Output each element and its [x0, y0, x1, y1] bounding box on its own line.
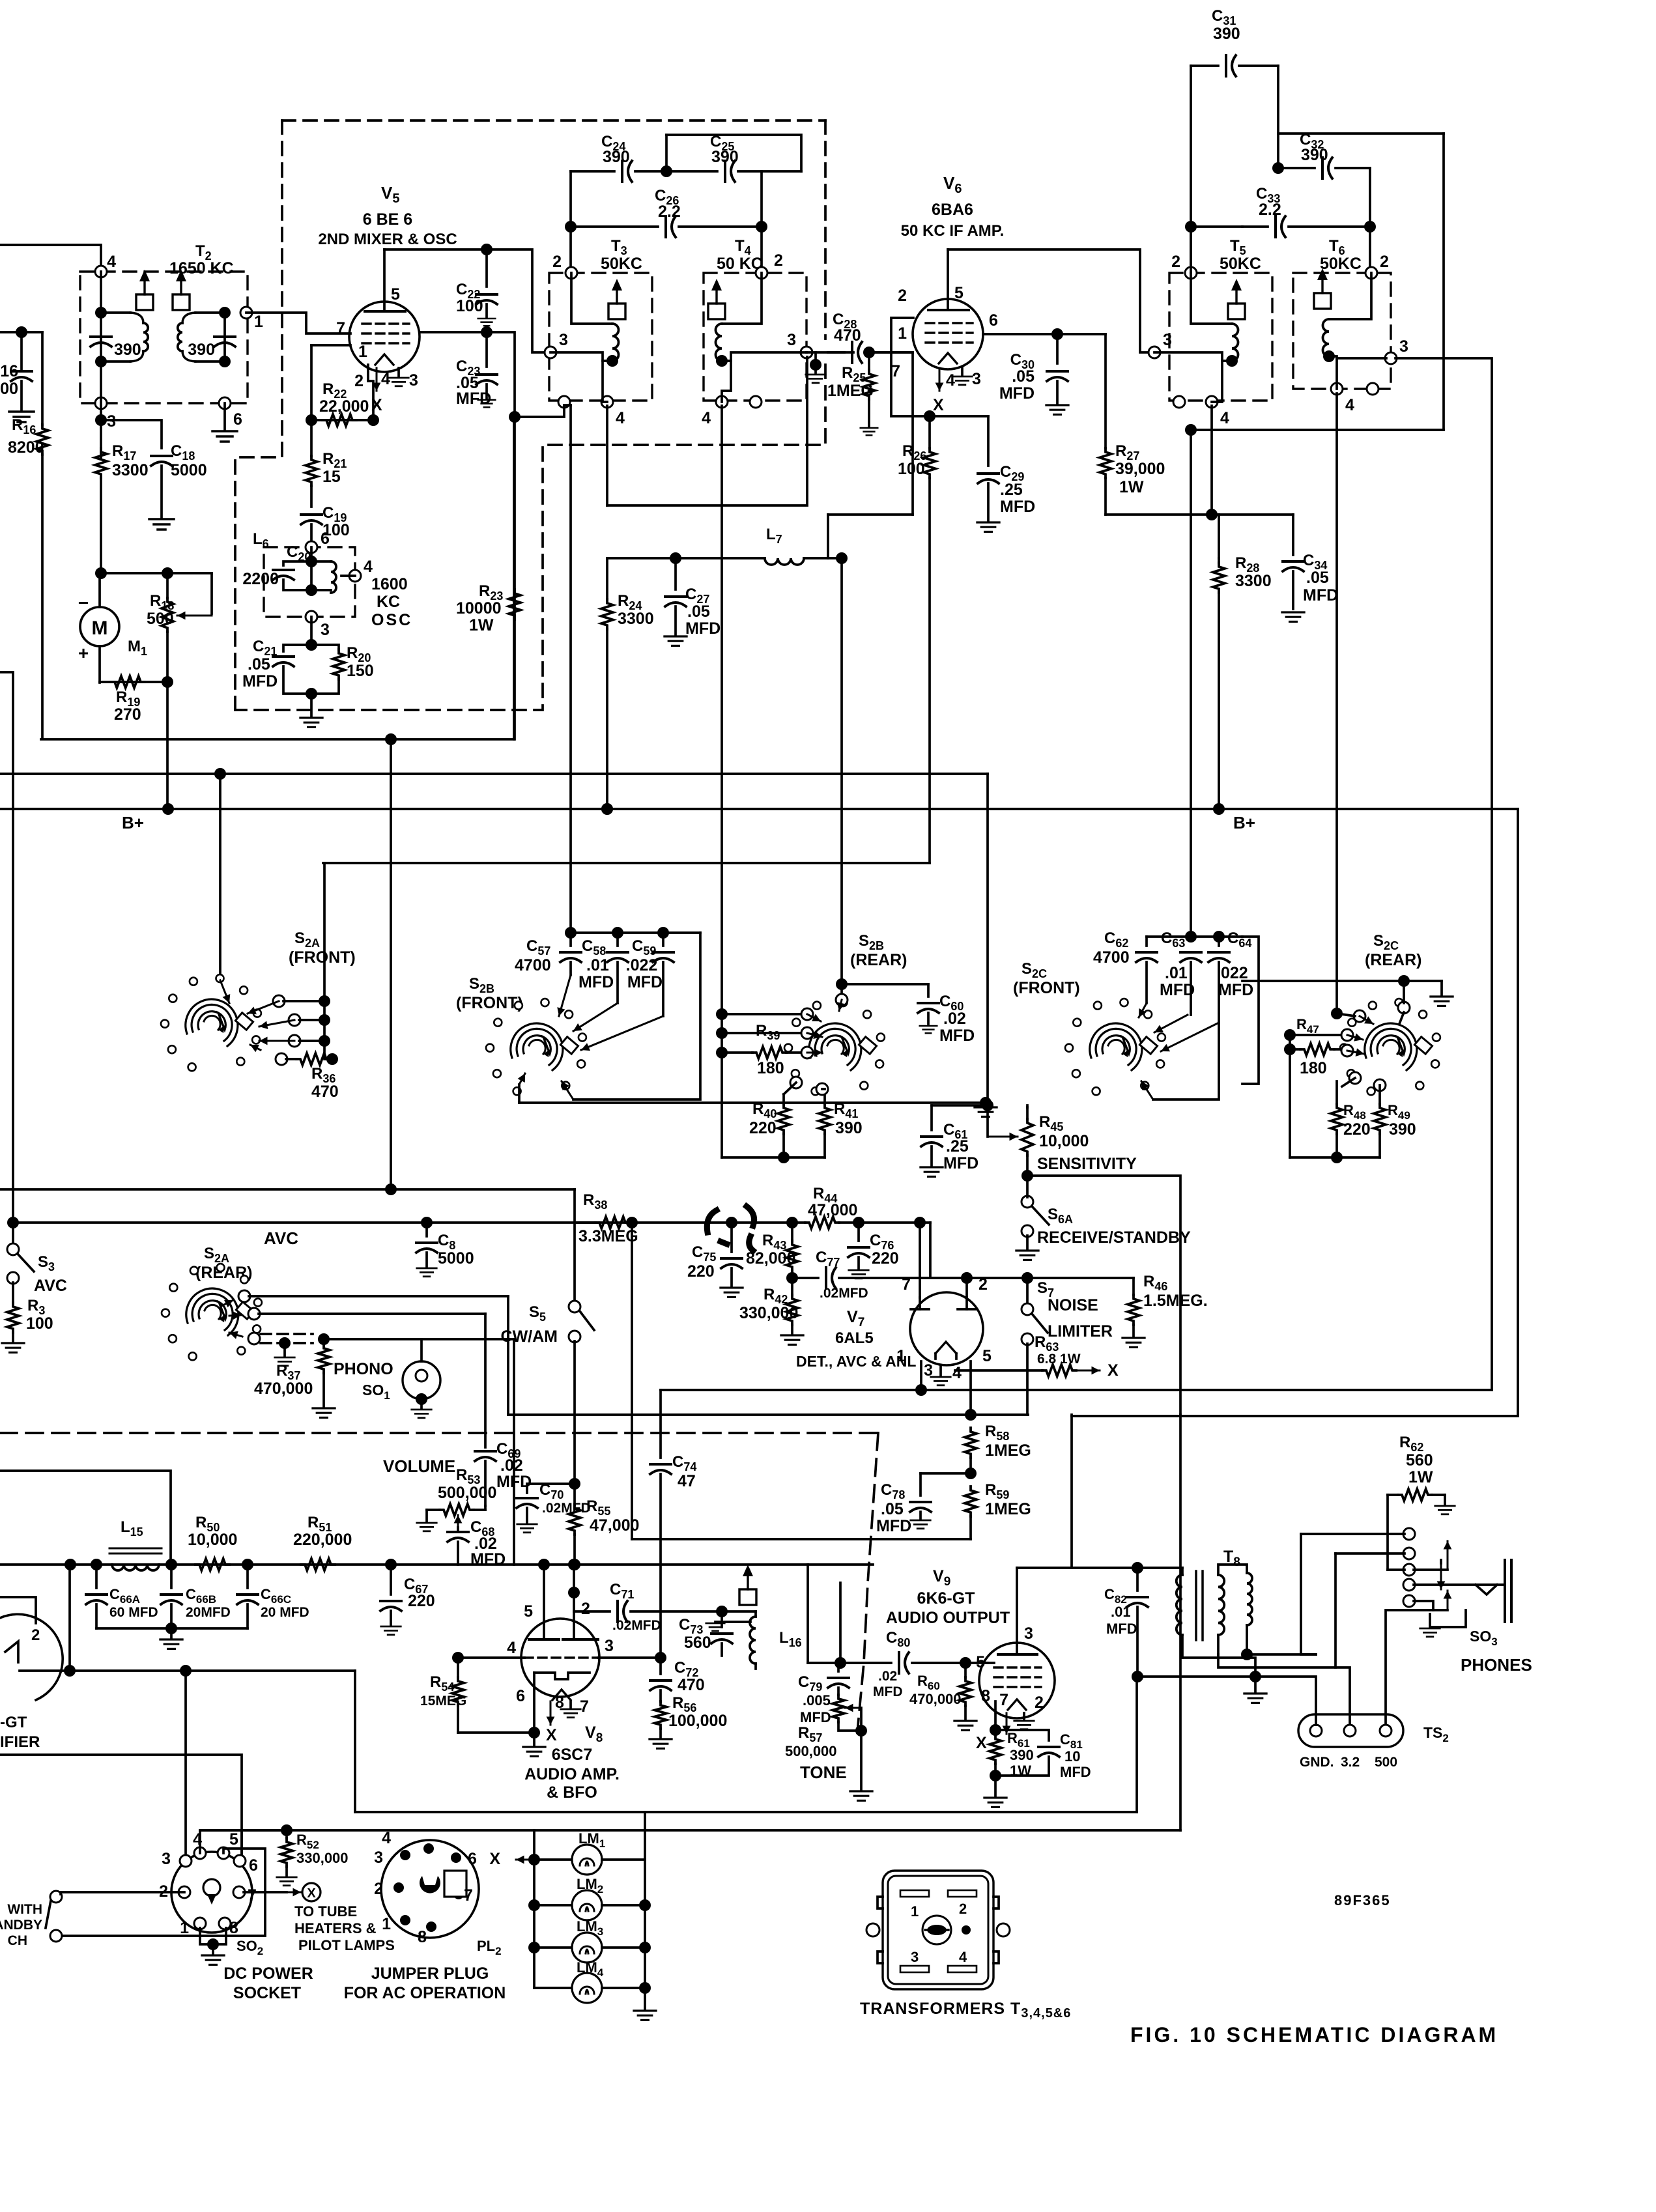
svg-text:6: 6 [468, 1850, 477, 1868]
svg-text:6: 6 [321, 530, 330, 548]
outer dashed boundary of converter/oscillator section [282, 119, 825, 122]
wire L7 to V6 grid line [828, 513, 913, 516]
V9 pin 3 wire [1016, 1568, 1018, 1654]
DC power socket SO2 [171, 1852, 252, 1933]
svg-text:4: 4 [107, 253, 116, 271]
svg-text:7: 7 [248, 1886, 257, 1905]
L6 pin 6 [306, 541, 317, 553]
R48/R49 bottom tie [1290, 1156, 1380, 1159]
svg-text:10: 10 [1064, 1748, 1080, 1765]
svg-text:16: 16 [0, 362, 18, 380]
svg-text:(FRONT): (FRONT) [289, 948, 356, 967]
switch S6A RECEIVE/STANDBY [1021, 1196, 1033, 1208]
svg-text:2: 2 [552, 253, 562, 271]
network bottom tie [722, 1156, 825, 1159]
capacitor C75 220 [730, 1223, 733, 1252]
T4 pin 3 [801, 347, 812, 358]
SO2 box outline [240, 1830, 243, 1854]
svg-text:6: 6 [989, 311, 998, 330]
svg-text:(FRONT): (FRONT) [456, 994, 523, 1012]
svg-text:TONE: TONE [800, 1763, 847, 1782]
svg-text:50 KC IF AMP.: 50 KC IF AMP. [901, 222, 1005, 240]
capacitor C66C 20 MFD [246, 1565, 249, 1588]
svg-text:MFD: MFD [1303, 586, 1338, 604]
svg-text:2: 2 [374, 1880, 383, 1898]
svg-text:6: 6 [249, 1856, 258, 1875]
V6 pin6 wire [983, 333, 1106, 335]
C66 bottom tie [96, 1627, 248, 1630]
wire T2 pin6 to ground [223, 403, 226, 430]
wire R38 down to audio bus [631, 1223, 633, 1539]
svg-text:.02MFD: .02MFD [612, 1618, 661, 1633]
T5 slug [1228, 304, 1245, 319]
resistor R21 15 [310, 420, 313, 456]
svg-text:82,000: 82,000 [746, 1249, 795, 1268]
T5 winding [1191, 273, 1232, 324]
AVC feed drop to C62 bank [1190, 430, 1192, 937]
phone jack body [1504, 1560, 1506, 1622]
wire T5 pin4 down [1210, 406, 1213, 515]
capacitor C62 4700 [1136, 951, 1157, 954]
svg-text:8: 8 [418, 1928, 427, 1946]
resistor R24 3300 [606, 558, 608, 599]
V6 cathode [939, 353, 957, 363]
audio B+ bus [0, 1563, 873, 1566]
svg-text:470: 470 [678, 1676, 705, 1694]
svg-text:MFD: MFD [456, 390, 491, 408]
V5 pin 4 heater arrow [376, 368, 378, 391]
S2C rear lower contacts [1349, 1072, 1361, 1084]
capacitor C28 470 [828, 351, 844, 354]
svg-text:.02: .02 [943, 1010, 966, 1028]
svg-text:22,000: 22,000 [319, 397, 369, 416]
potentiometer R45 10,000 [988, 1136, 1018, 1138]
svg-text:2: 2 [31, 1626, 40, 1644]
svg-text:5: 5 [524, 1602, 533, 1621]
V8 pin 8 heater [550, 1701, 552, 1725]
svg-text:1: 1 [898, 324, 907, 343]
wire C57 bank top bus [569, 931, 572, 934]
svg-text:MFD: MFD [1000, 498, 1035, 516]
capacitor C57 4700 [569, 933, 572, 946]
svg-text:6K6-GT: 6K6-GT [917, 1589, 975, 1608]
svg-text:5: 5 [982, 1347, 992, 1365]
T3 pin 3 [545, 347, 556, 358]
svg-text:4700: 4700 [1093, 948, 1130, 967]
svg-text:AUDIO OUTPUT: AUDIO OUTPUT [886, 1609, 1010, 1627]
svg-text:390: 390 [114, 341, 141, 359]
svg-text:3300: 3300 [1235, 572, 1272, 590]
svg-text:390: 390 [711, 148, 739, 166]
wire S2C rear top [1242, 980, 1442, 982]
svg-text:2: 2 [1380, 253, 1389, 271]
wire T8 sec bottom to TS2 3.2 [1218, 1654, 1350, 1725]
capacitor C24 390 [621, 161, 623, 182]
svg-text:1W: 1W [1408, 1468, 1433, 1486]
switch S2C REAR wafer [1365, 1023, 1417, 1070]
V10 cathode bus [20, 1669, 355, 1672]
S2A ladder vertical [324, 863, 332, 1059]
switch S7 NOISE LIMITER [1026, 1278, 1029, 1304]
tube V5 envelope [349, 302, 420, 372]
resistor R26 100 [928, 416, 931, 448]
capacitor C66B 20MFD [170, 1565, 173, 1588]
V8 pin 6 wire [533, 1673, 535, 1733]
wire IF bottom bus [1191, 429, 1444, 431]
svg-text:HEATERS &: HEATERS & [294, 1920, 377, 1936]
lamp bus ground [644, 1988, 646, 2009]
resistor R44 47,000 [786, 1217, 798, 1228]
wire IF line with L7 [607, 557, 765, 560]
capacitor C22 100 [485, 249, 488, 287]
svg-text:CH: CH [8, 1933, 27, 1948]
svg-text:3: 3 [559, 331, 568, 349]
svg-text:LIMITER: LIMITER [1048, 1322, 1113, 1340]
svg-text:MFD: MFD [1160, 981, 1195, 999]
resistor R43 82,000 [791, 1223, 793, 1241]
resistor R23 10000 1W [509, 589, 521, 619]
S2C rear left contacts [1331, 1008, 1343, 1019]
PL2 notch rect [444, 1871, 466, 1897]
svg-text:470: 470 [311, 1083, 339, 1101]
capacitor C34 .05 MFD [1219, 513, 1293, 516]
svg-text:390: 390 [835, 1119, 863, 1137]
svg-text:6: 6 [516, 1687, 525, 1705]
R57 pot symbol with C79 [837, 1663, 840, 1671]
bus line 1 [41, 738, 514, 741]
capacitor C61 .25 MFD [930, 1105, 933, 1130]
resistor R28 3300 [1218, 558, 1220, 563]
svg-text:SENSITIVITY: SENSITIVITY [1037, 1155, 1137, 1173]
svg-text:6.8 1W: 6.8 1W [1037, 1352, 1081, 1367]
svg-text:10,000: 10,000 [188, 1531, 237, 1549]
svg-text:.01: .01 [1165, 964, 1188, 982]
svg-text:022: 022 [1221, 964, 1248, 982]
T3 pin 2 [565, 267, 577, 279]
resistor R46 1.5MEG [1132, 1278, 1135, 1295]
svg-text:3300: 3300 [618, 610, 654, 628]
svg-text:.01: .01 [586, 956, 609, 974]
svg-text:7: 7 [999, 1691, 1008, 1709]
B plus feed right section [1442, 134, 1445, 430]
capacitor C29 .25 MFD [987, 416, 990, 466]
tube V9 envelope [979, 1643, 1055, 1718]
tube V8 envelope [521, 1619, 599, 1697]
V8 grid dashed [524, 1656, 598, 1658]
S2A rotor arrow [220, 980, 229, 1003]
svg-text:MFD: MFD [685, 619, 721, 638]
grid resistor R22 22,000 [306, 414, 317, 426]
wire left edge feed [0, 331, 42, 333]
svg-text:3: 3 [972, 370, 981, 388]
svg-text:100: 100 [456, 297, 483, 315]
svg-text:X: X [546, 1726, 557, 1744]
svg-text:X: X [1107, 1361, 1119, 1380]
svg-text:.25: .25 [1000, 481, 1023, 499]
svg-text:6BA6: 6BA6 [932, 201, 973, 219]
svg-text:3: 3 [162, 1850, 171, 1868]
L6 pin 3 [306, 611, 317, 623]
svg-text:4: 4 [364, 558, 373, 576]
transformer T6 box [1293, 273, 1391, 389]
V9 pin2 ground [1023, 1713, 1025, 1720]
svg-text:.05: .05 [687, 603, 710, 621]
bus line B right segment [1072, 1415, 1518, 1417]
resistor R38 3.3MEG [577, 1221, 595, 1224]
svg-text:4: 4 [381, 370, 390, 388]
wire IF to S2B rear [828, 557, 842, 560]
svg-text:2200: 2200 [242, 570, 279, 588]
potentiometer R18 500 [210, 573, 213, 614]
T3 pin 4 [601, 396, 613, 408]
switch S2B FRONT wafer [511, 1023, 563, 1070]
dashed phono/audio separator [0, 1432, 878, 1434]
R48/R49 resistors [1335, 1081, 1338, 1104]
svg-text:47,000: 47,000 [808, 1201, 857, 1219]
svg-text:7: 7 [580, 1697, 589, 1716]
svg-text:3: 3 [374, 1849, 383, 1867]
svg-text:390: 390 [1010, 1747, 1034, 1763]
wire to T8 region [354, 1671, 356, 1812]
R54 ground tie [458, 1731, 534, 1734]
wire R44 right to C76/R46 node [859, 1221, 930, 1224]
svg-text:4: 4 [507, 1639, 516, 1657]
V8 pin 2 [573, 1565, 575, 1639]
svg-text:FIG. 10 SCHEMATIC DIAGRAM: FIG. 10 SCHEMATIC DIAGRAM [1130, 2023, 1498, 2047]
svg-text:47,000: 47,000 [590, 1516, 639, 1535]
svg-text:JUMPER PLUG: JUMPER PLUG [371, 1964, 489, 1983]
V7 pin 2 wire [965, 1278, 968, 1297]
svg-text:2.2: 2.2 [1259, 201, 1281, 219]
svg-text:.01: .01 [1111, 1604, 1131, 1620]
S2A front contacts to ladder [273, 995, 285, 1007]
svg-text:500: 500 [1375, 1755, 1397, 1770]
transformer T5 box [1169, 273, 1272, 401]
long bus to lamps upper [355, 1811, 1137, 1813]
wire phono feed drop [513, 1339, 515, 1565]
R59 1MEG [965, 1486, 977, 1516]
L6 pin 4 [349, 570, 361, 582]
svg-text:(FRONT): (FRONT) [1013, 979, 1080, 997]
svg-text:MFD: MFD [939, 1027, 975, 1045]
svg-text:4: 4 [702, 409, 711, 427]
bus line B noise [508, 1413, 1028, 1416]
svg-text:MFD: MFD [1060, 1764, 1091, 1780]
capacitor C21 .05 MFD [283, 645, 311, 651]
resistor R36 470 [286, 1058, 296, 1060]
svg-text:50KC: 50KC [601, 255, 642, 273]
footprint center [922, 1916, 951, 1944]
svg-text:3: 3 [1163, 331, 1172, 349]
capacitor C32 390 [1272, 162, 1284, 174]
svg-text:3.2: 3.2 [1341, 1755, 1360, 1770]
svg-text:X: X [307, 1886, 316, 1901]
AVC bus [13, 1221, 792, 1224]
transformer T2 box [80, 272, 248, 403]
T6 slug [1314, 293, 1331, 309]
phone jack terminals [1403, 1528, 1415, 1540]
T2 pin 6 [219, 397, 231, 409]
L6 oscillator coil box [264, 547, 355, 617]
T5 pin 4 [1206, 396, 1218, 408]
AVC return bus [323, 862, 930, 864]
T3 winding [571, 273, 612, 324]
svg-text:(REAR): (REAR) [850, 951, 907, 969]
V8 grid wire left [458, 1656, 524, 1659]
svg-text:2: 2 [1171, 253, 1180, 271]
wire to ground [310, 694, 313, 716]
svg-text:.05: .05 [248, 655, 270, 674]
capacitor C18 5000 [151, 455, 172, 457]
tube V6 envelope [913, 299, 983, 369]
long bus to lamps lower [200, 1829, 1180, 1832]
C62/63/64 top bus [1147, 935, 1242, 938]
wire top link to C32 [1277, 66, 1279, 168]
V5 plate bar [365, 310, 405, 313]
svg-text:2: 2 [898, 287, 907, 305]
svg-text:4: 4 [952, 1364, 962, 1382]
wire osc bottom joint [569, 405, 572, 933]
svg-text:3: 3 [1399, 337, 1408, 356]
capacitor C33 2.2 [1242, 225, 1268, 228]
transformer T3 box [549, 273, 652, 401]
svg-text:500,000: 500,000 [438, 1484, 496, 1502]
T5 pin 2 [1185, 267, 1197, 279]
T4 bottom terminal [750, 396, 762, 408]
T2 pin 1 [240, 307, 252, 319]
svg-text:4: 4 [616, 409, 625, 427]
V5 plate wire to T3 [384, 249, 546, 352]
footprint pads [900, 1890, 929, 1897]
capacitor C72 470 [659, 1658, 662, 1674]
svg-text:2: 2 [1035, 1694, 1044, 1712]
tube V7 envelope [910, 1292, 983, 1365]
switch S2B REAR wafer [809, 1023, 861, 1070]
resistor R60 470,000 [960, 1657, 971, 1669]
wire C80 to V9 grid [965, 1662, 988, 1664]
capacitor C82 .01 MFD [1136, 1568, 1139, 1591]
svg-text:330,000: 330,000 [296, 1850, 349, 1866]
svg-text:3: 3 [321, 621, 330, 639]
wire C33 left link [1191, 225, 1242, 228]
L16 ground tap [715, 1621, 750, 1623]
svg-text:MFD: MFD [242, 672, 278, 690]
svg-text:MFD: MFD [627, 973, 663, 991]
svg-text:100: 100 [26, 1314, 53, 1333]
svg-text:PHONO: PHONO [334, 1360, 393, 1378]
svg-text:MFD: MFD [578, 973, 614, 991]
svg-text:TO TUBE: TO TUBE [294, 1903, 357, 1920]
T4 pin 2 [756, 267, 767, 279]
wire V10 grid line [0, 1755, 242, 1854]
svg-text:6: 6 [233, 410, 242, 429]
V10 cathode chevron [5, 1641, 18, 1662]
jack sleeve ground [1430, 1610, 1466, 1627]
V5 pin 5 [383, 249, 386, 311]
ground [149, 519, 174, 530]
V10 coupling box wire [0, 1471, 171, 1565]
switch S2C FRONT wafer [1090, 1023, 1142, 1070]
S2B front bottom return [573, 933, 700, 1099]
svg-text:3: 3 [1024, 1624, 1033, 1643]
svg-text:5: 5 [976, 1653, 985, 1671]
svg-text:6SC7: 6SC7 [552, 1746, 593, 1764]
resistor R27 39,000 1W [1100, 448, 1111, 478]
svg-text:5: 5 [391, 285, 400, 304]
S2B rear lower contacts [790, 1077, 802, 1088]
capacitor C81 10 MFD [995, 1730, 1049, 1740]
V7 pin 7 wire [919, 1223, 921, 1297]
svg-text:1600: 1600 [371, 575, 408, 593]
svg-text:150: 150 [347, 662, 374, 680]
wire sensitivity feed [986, 1103, 989, 1105]
svg-text:470,000: 470,000 [909, 1691, 962, 1707]
T2 pin 3 [95, 397, 107, 409]
svg-text:5000: 5000 [171, 461, 207, 479]
T6 pin 3 [1385, 352, 1397, 364]
svg-text:+: + [78, 643, 89, 663]
T2 pin 4 [95, 266, 107, 277]
wire L6 pin3 down [310, 617, 313, 645]
capacitor C8 5000 [425, 1223, 428, 1236]
svg-text:FOR AC OPERATION: FOR AC OPERATION [344, 1984, 506, 2002]
svg-text:4: 4 [946, 371, 955, 390]
wire bus2 to S2A rotor [219, 774, 221, 980]
T2 secondary winding [195, 311, 225, 314]
svg-text:3: 3 [787, 331, 796, 349]
V6 pin 3 ground [961, 367, 964, 375]
svg-text:AVC: AVC [34, 1277, 67, 1295]
wire T2 pin1 to V5 grid [246, 313, 350, 333]
svg-text:500,000: 500,000 [785, 1743, 837, 1759]
resistor R39 180 [752, 1047, 786, 1058]
resistor R41 390 [823, 1089, 826, 1104]
svg-text:220,000: 220,000 [293, 1531, 352, 1549]
resistor R17 3300 [95, 448, 107, 478]
T8 primary winding [1181, 1568, 1184, 1575]
V7 pin5 wire down [969, 1361, 972, 1415]
wire antenna input top left [0, 245, 101, 272]
wire C31 loop top [1190, 66, 1192, 273]
T8 core [1195, 1571, 1197, 1640]
svg-text:4: 4 [1220, 409, 1229, 427]
T2 primary slug [136, 294, 153, 310]
svg-text:.02: .02 [878, 1669, 897, 1684]
capacitor C80 .02 MFD [898, 1652, 900, 1673]
svg-text:1W: 1W [1119, 478, 1144, 496]
T2 secondary slug [173, 294, 190, 310]
S2B front contact arrows [559, 975, 571, 1016]
svg-text:8200: 8200 [8, 438, 44, 457]
svg-text:AUDIO AMP.: AUDIO AMP. [524, 1765, 620, 1783]
V8 pin 7 ground [569, 1701, 572, 1708]
resistor R52 330,000 [285, 1830, 288, 1838]
svg-text:4: 4 [382, 1829, 391, 1847]
capacitor C23 .05 MFD [485, 332, 488, 367]
ground [9, 412, 34, 422]
switch S5 CW/AM [569, 1301, 580, 1312]
T6 pin 2 [1365, 267, 1377, 279]
svg-text:.005: .005 [803, 1692, 831, 1709]
svg-text:3: 3 [911, 1949, 919, 1965]
svg-text:390: 390 [1213, 25, 1240, 43]
switch S2A REAR wafer [186, 1288, 238, 1335]
T6 winding [1329, 273, 1371, 319]
wire C82 bottom to T8 ground side [1137, 1675, 1255, 1678]
S2B rear contact rows [716, 1008, 728, 1020]
T6 pin 4 [1331, 383, 1343, 395]
node T2 pin3 junction [95, 414, 107, 426]
